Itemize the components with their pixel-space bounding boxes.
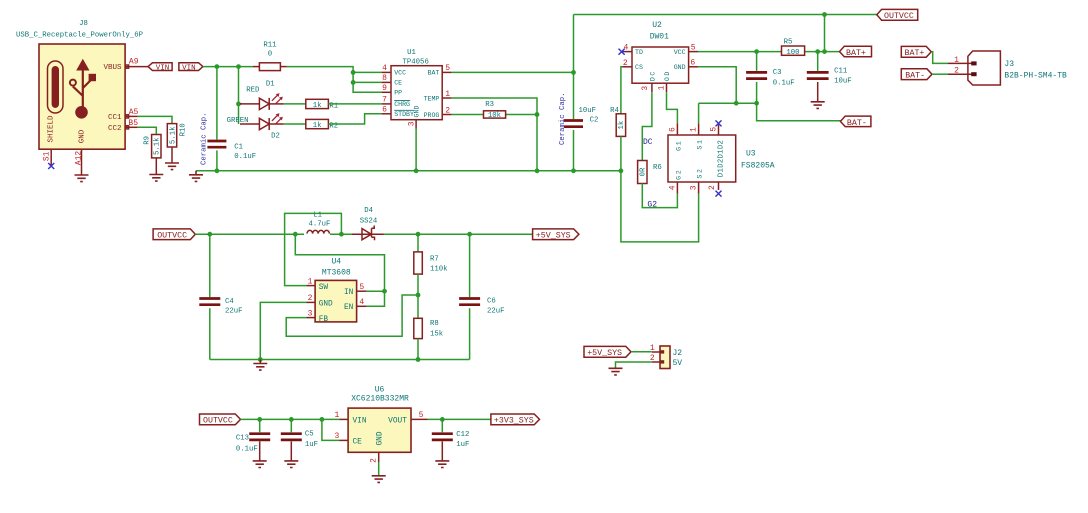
ground below C5 <box>284 461 298 468</box>
svg-text:GND: GND <box>79 129 87 143</box>
svg-text:0.1uF: 0.1uF <box>234 153 256 161</box>
wire U1 GND to rail <box>415 129 417 171</box>
svg-text:4: 4 <box>668 185 677 190</box>
svg-text:9: 9 <box>382 84 387 93</box>
resistor R3 10k <box>484 101 506 120</box>
svg-text:D1D2D1D2: D1D2D1D2 <box>718 140 726 177</box>
wire FB to divider tap <box>286 295 418 336</box>
svg-text:J2: J2 <box>673 349 683 358</box>
svg-text:1: 1 <box>445 90 450 99</box>
junction CE branch <box>320 417 325 422</box>
junction C12 <box>440 417 445 422</box>
pin GND (A12) with ground <box>75 129 89 181</box>
U6 pin 1 VIN <box>334 411 366 425</box>
ground below C13 <box>253 461 267 468</box>
svg-text:C13: C13 <box>236 434 249 442</box>
svg-text:CE: CE <box>353 438 363 446</box>
IC U2 DW01 <box>632 21 689 83</box>
junction R7 <box>416 232 421 237</box>
U1 pin 9 PP <box>382 84 403 97</box>
power flag +5V_SYS (boost output) <box>533 229 579 241</box>
diode D4 SS24 <box>360 207 378 240</box>
svg-text:22uF: 22uF <box>225 308 243 316</box>
svg-text:B2B-PH-SM4-TB: B2B-PH-SM4-TB <box>1004 71 1067 80</box>
wire VIN bus to R11 and U1 <box>203 67 382 93</box>
U3 pin 4 G2 <box>668 169 682 194</box>
power flag OUTVCC (LDO input) <box>200 414 241 426</box>
svg-text:R8: R8 <box>430 320 439 328</box>
svg-text:VIN: VIN <box>353 417 367 425</box>
junction GND/S1 <box>734 101 739 106</box>
capacitor C6 22uF <box>459 234 504 359</box>
svg-text:DC: DC <box>650 70 657 81</box>
svg-text:3: 3 <box>690 185 699 190</box>
svg-text:TD: TD <box>635 49 643 56</box>
power flag +3V3_SYS <box>491 414 540 426</box>
svg-text:22uF: 22uF <box>487 308 505 316</box>
svg-text:CHRG: CHRG <box>394 101 410 108</box>
svg-text:C12: C12 <box>456 431 469 439</box>
wire OD to G1 <box>667 92 678 123</box>
svg-text:R11: R11 <box>263 42 277 50</box>
svg-text:VBUS: VBUS <box>103 64 122 72</box>
svg-text:D4: D4 <box>364 207 373 215</box>
svg-text:4: 4 <box>359 298 364 307</box>
U1 pin 3 GND <box>408 106 421 129</box>
connector J2 body <box>660 346 682 369</box>
wire VOUT to +3V3_SYS <box>428 418 491 420</box>
resistor R9 5.1k <box>144 135 162 175</box>
resistor R11 0 <box>253 42 287 71</box>
svg-text:XC6210B332MR: XC6210B332MR <box>351 395 409 404</box>
svg-text:L1: L1 <box>313 211 322 219</box>
svg-text:6: 6 <box>668 127 677 132</box>
svg-text:5.1k: 5.1k <box>169 126 177 144</box>
junction rail C1 <box>215 168 220 173</box>
connector J3 body <box>968 51 1067 85</box>
svg-text:4: 4 <box>382 64 387 73</box>
svg-text:7: 7 <box>382 96 387 105</box>
svg-text:C2: C2 <box>590 117 599 125</box>
svg-text:0R: 0R <box>640 167 648 176</box>
capacitor C2 10uF <box>564 107 598 127</box>
IC U1 TP4056 <box>391 49 442 120</box>
svg-text:6: 6 <box>382 106 387 115</box>
svg-text:1k: 1k <box>618 120 626 129</box>
svg-text:VCC: VCC <box>674 49 686 56</box>
svg-text:SW: SW <box>319 284 329 292</box>
svg-text:1: 1 <box>690 127 699 132</box>
svg-text:PP: PP <box>394 90 402 97</box>
ground below U6 <box>372 476 386 483</box>
svg-text:VOUT: VOUT <box>388 417 407 425</box>
junction FB tap <box>416 293 421 298</box>
svg-text:U6: U6 <box>375 385 385 394</box>
svg-text:C1: C1 <box>234 144 243 152</box>
wire CC1 to R10 <box>138 116 172 123</box>
svg-text:TEMP: TEMP <box>424 95 440 102</box>
junction TEMP/PROG <box>535 112 540 117</box>
svg-text:1k: 1k <box>313 102 322 110</box>
svg-text:U2: U2 <box>652 21 662 30</box>
resistor R4 1k <box>610 107 626 171</box>
svg-text:MT3608: MT3608 <box>322 268 351 277</box>
svg-text:1uF: 1uF <box>456 441 469 449</box>
resistor R5 100 <box>782 39 805 57</box>
resistor R6 0R <box>638 161 662 184</box>
svg-text:2: 2 <box>370 458 379 463</box>
junction rail U1 GND <box>414 168 419 173</box>
svg-text:Ceramic Cap.: Ceramic Cap. <box>559 92 567 145</box>
svg-text:0.1uF: 0.1uF <box>236 445 258 453</box>
svg-text:CC2: CC2 <box>108 125 122 133</box>
USB trident glyph <box>70 59 96 119</box>
svg-text:CS: CS <box>635 64 643 71</box>
svg-text:R10: R10 <box>180 123 188 136</box>
wire SW top loop <box>285 213 342 285</box>
power flag BAT+ (J3) <box>901 46 931 58</box>
wire DC to R6 <box>642 92 652 160</box>
svg-text:C6: C6 <box>487 298 496 306</box>
svg-text:BAT: BAT <box>428 70 440 77</box>
svg-text:S1: S1 <box>697 138 704 149</box>
LED D2 GREEN <box>227 113 284 140</box>
svg-text:5: 5 <box>445 64 450 73</box>
J2 pin 2 <box>650 354 660 363</box>
svg-text:0.1uF: 0.1uF <box>773 80 795 88</box>
svg-text:+3V3_SYS: +3V3_SYS <box>494 417 534 426</box>
junction rail R4/S2 <box>619 168 624 173</box>
ground symbol boost rail <box>253 360 267 371</box>
svg-text:3: 3 <box>641 86 650 91</box>
svg-text:IN: IN <box>344 289 354 297</box>
ground below C12 <box>435 461 449 468</box>
svg-text:1: 1 <box>954 56 959 65</box>
U4 pin 1 SW <box>307 277 329 292</box>
svg-text:BAT+: BAT+ <box>905 49 925 58</box>
U2 pin 4 TD with no-connect X <box>619 43 643 56</box>
U1 pin 6 STDBY <box>382 106 415 119</box>
wire IN/EN tie to OUTVCC <box>295 234 384 306</box>
svg-text:VCC: VCC <box>394 70 406 77</box>
U2 pin 3 DC <box>641 70 657 92</box>
power flag BAT+ (left) <box>840 46 872 58</box>
junction rail TEMP <box>535 168 540 173</box>
pin SHIELD (S1) with no-connect X <box>43 115 56 169</box>
svg-text:+5V_SYS: +5V_SYS <box>536 232 571 241</box>
wire VCC to R5/BAT+ <box>698 51 840 53</box>
U3 pin 1 S1 <box>690 123 704 149</box>
capacitor C12 1uF <box>432 419 470 461</box>
junction R5/OUTVCC riser <box>822 49 827 54</box>
ground below R9 <box>149 175 163 182</box>
svg-text:6: 6 <box>690 58 695 67</box>
svg-text:C11: C11 <box>834 67 848 75</box>
svg-text:G2: G2 <box>647 201 657 210</box>
junction LED D1 <box>236 102 241 107</box>
resistor R2 1k <box>284 114 382 131</box>
pin CC2 (B5) <box>108 119 138 133</box>
resistor R1 1k <box>284 99 382 110</box>
U1 pin 7 CHRG <box>382 96 411 109</box>
wire C1 branch <box>216 67 218 171</box>
svg-text:1: 1 <box>308 277 313 286</box>
svg-text:4: 4 <box>623 43 628 52</box>
svg-text:CC1: CC1 <box>108 114 122 122</box>
svg-text:VIN: VIN <box>182 65 196 73</box>
wire S2 return to rail <box>621 171 699 242</box>
U1 pin 1 TEMP <box>424 90 452 103</box>
junction R5/C11 <box>815 49 820 54</box>
junction VIN/LED <box>236 64 241 69</box>
svg-text:4.7uF: 4.7uF <box>309 220 331 228</box>
power flag BAT- (left) <box>840 116 871 128</box>
power flag +5V_SYS (J2) <box>584 346 631 358</box>
svg-text:USB_C_Receptacle_PowerOnly_6P: USB_C_Receptacle_PowerOnly_6P <box>16 32 143 40</box>
wire R6 to G2 <box>642 184 677 208</box>
svg-text:C4: C4 <box>225 298 234 306</box>
svg-text:GND: GND <box>414 106 421 118</box>
ground below C11 <box>811 102 825 109</box>
U6 pin 3 CE <box>334 432 362 446</box>
junction C3 bottom <box>754 101 759 106</box>
svg-text:SHIELD: SHIELD <box>47 115 55 143</box>
wire TEMP loop <box>452 98 537 171</box>
wire OUTVCC top run <box>574 14 877 16</box>
svg-text:VIN: VIN <box>156 65 170 73</box>
svg-text:0: 0 <box>268 51 272 59</box>
svg-text:15k: 15k <box>430 330 444 338</box>
svg-text:1uF: 1uF <box>305 441 318 449</box>
U1 pin 8 CE <box>382 74 403 87</box>
svg-text:3: 3 <box>308 309 313 318</box>
power flag VIN (input) <box>148 63 172 73</box>
svg-text:SS24: SS24 <box>360 218 378 226</box>
wire BAT- to J3 pin 2 <box>932 73 948 75</box>
svg-text:OUTVCC: OUTVCC <box>203 417 233 426</box>
junction C13 <box>257 417 262 422</box>
junction BAT/C2 <box>571 70 576 75</box>
wire PROG to R3 <box>452 114 537 116</box>
U2 pin 1 OD <box>657 70 671 92</box>
junction VCC/C3 <box>754 49 759 54</box>
svg-text:BAT-: BAT- <box>847 119 867 128</box>
svg-text:U3: U3 <box>746 150 756 159</box>
boost ground rail <box>210 359 470 361</box>
U2 pin 2 CS <box>623 59 643 71</box>
U4 pin 5 IN <box>344 283 367 297</box>
U2 pin 6 GND <box>674 58 698 71</box>
svg-text:U1: U1 <box>407 49 416 57</box>
svg-text:8: 8 <box>382 74 387 83</box>
wire LED branch <box>239 67 243 124</box>
svg-text:1k: 1k <box>313 122 322 130</box>
svg-text:Ceramic Cap.: Ceramic Cap. <box>201 112 209 165</box>
svg-text:OD: OD <box>664 70 671 81</box>
svg-text:R9: R9 <box>144 136 152 145</box>
power flag OUTVCC (boost input) <box>153 229 195 241</box>
svg-text:+5V_SYS: +5V_SYS <box>587 349 622 358</box>
svg-text:S1: S1 <box>43 151 52 161</box>
svg-text:5V: 5V <box>673 359 683 368</box>
svg-text:S2: S2 <box>697 167 704 178</box>
svg-text:GND: GND <box>674 64 686 71</box>
wire riser to top <box>824 15 826 52</box>
power flag OUTVCC (top right) <box>877 9 918 21</box>
svg-text:2: 2 <box>308 294 313 303</box>
J3 pin 1 <box>948 56 977 66</box>
capacitor C4 22uF <box>199 234 242 359</box>
U6 pin 5 VOUT <box>388 411 427 425</box>
junction L1 right / SW <box>339 232 344 237</box>
junction VIN/C1 <box>215 64 220 69</box>
junction rail C2 <box>571 168 576 173</box>
junction rail U4 GND <box>258 357 263 362</box>
svg-text:2: 2 <box>445 106 450 115</box>
svg-text:DC: DC <box>643 138 653 147</box>
U6 pin 2 GND <box>370 431 385 463</box>
wire BAT+ to J3 pin 1 <box>931 52 948 64</box>
U4 pin 2 GND <box>307 294 334 309</box>
wire U2 GND / S1 / C3 / BAT- net <box>698 67 840 124</box>
capacitor C1 0.1uF <box>207 141 256 161</box>
ground rail of charger section <box>196 170 621 172</box>
svg-text:5: 5 <box>359 283 364 292</box>
inductor L1 4.7uF <box>307 211 330 233</box>
U3 pin 2 with no-connect X <box>708 182 722 197</box>
svg-text:A12: A12 <box>75 151 84 166</box>
capacitor C5 1uF <box>281 419 318 461</box>
wire CC2 to R9 <box>138 127 157 134</box>
wire U4 GND to rail <box>260 302 306 359</box>
LED D1 RED <box>240 81 284 110</box>
U3 pin 6 G1 <box>668 123 682 150</box>
svg-text:G2: G2 <box>676 169 683 180</box>
ground below J2 <box>609 368 623 375</box>
svg-text:10uF: 10uF <box>579 107 597 115</box>
wire U6 GND to ground <box>378 462 380 476</box>
IC U6 XC6210B332MR <box>348 385 411 452</box>
connector J8 body <box>16 20 143 149</box>
IC U3 FS8205A <box>668 135 775 182</box>
ground symbol at rail left <box>189 171 203 182</box>
U3 pin 5 with no-connect X <box>709 120 721 135</box>
svg-text:1: 1 <box>334 411 339 420</box>
svg-text:OUTVCC: OUTVCC <box>157 232 187 241</box>
svg-text:BAT-: BAT- <box>905 72 925 81</box>
svg-text:3: 3 <box>334 432 339 441</box>
svg-text:FB: FB <box>319 316 329 324</box>
svg-text:B5: B5 <box>128 119 138 128</box>
svg-text:DW01: DW01 <box>650 33 669 42</box>
svg-text:1: 1 <box>657 85 666 90</box>
junction C4 <box>207 232 212 237</box>
junction IN/EN <box>382 289 387 294</box>
pin VBUS (A9) <box>103 58 148 73</box>
svg-text:3: 3 <box>408 121 417 126</box>
svg-text:10uF: 10uF <box>834 78 852 86</box>
svg-text:U4: U4 <box>331 257 341 266</box>
U1 pin 5 BAT <box>428 64 452 77</box>
U1 pin 4 VCC <box>382 64 407 77</box>
svg-text:C3: C3 <box>773 69 782 77</box>
svg-text:5: 5 <box>419 411 424 420</box>
svg-text:BAT+: BAT+ <box>846 49 866 58</box>
junction top/BAT+ riser <box>822 12 827 17</box>
svg-text:GND: GND <box>377 431 385 445</box>
J3 pin 2 <box>948 67 977 77</box>
svg-text:CE: CE <box>394 80 402 87</box>
resistor R7 110k <box>414 234 448 295</box>
IC U4 MT3608 <box>315 257 357 322</box>
svg-text:R5: R5 <box>784 39 793 47</box>
svg-text:STDBY: STDBY <box>394 111 414 118</box>
U3 pin 3 S2 <box>690 167 704 193</box>
J2 pin 1 <box>650 344 660 353</box>
svg-text:5.1k: 5.1k <box>154 137 162 155</box>
resistor R10 5.1k <box>167 123 187 163</box>
svg-text:J3: J3 <box>1004 60 1014 69</box>
pin CC1 (A5) <box>108 108 139 122</box>
wire CS to R4 <box>621 67 623 114</box>
U2 pin 5 VCC <box>674 43 698 56</box>
capacitor C11 10uF <box>807 52 852 102</box>
power flag BAT- (J3) <box>901 69 932 81</box>
U1 pin 2 PROG <box>424 106 452 119</box>
svg-text:R7: R7 <box>430 256 439 264</box>
svg-text:A5: A5 <box>129 108 139 117</box>
capacitor C13 0.1uF <box>236 419 270 461</box>
wire BAT to OUTVCC riser <box>452 15 574 171</box>
capacitor C3 0.1uF <box>746 52 795 104</box>
svg-text:10k: 10k <box>488 112 502 120</box>
svg-text:D1: D1 <box>266 81 275 89</box>
svg-text:110k: 110k <box>430 265 448 273</box>
svg-text:2: 2 <box>708 185 717 190</box>
junction C5 <box>289 417 294 422</box>
wire boost main line <box>195 233 532 235</box>
svg-text:FS8205A: FS8205A <box>741 162 775 171</box>
svg-text:C5: C5 <box>305 430 314 438</box>
svg-text:GREEN: GREEN <box>227 117 249 125</box>
svg-text:PROG: PROG <box>424 112 440 119</box>
svg-text:OUTVCC: OUTVCC <box>884 12 914 21</box>
power flag VIN (output) <box>179 63 203 73</box>
svg-text:A9: A9 <box>129 58 139 67</box>
svg-text:2: 2 <box>954 67 959 76</box>
wire +5V_SYS to J2 pin 1 <box>616 352 652 369</box>
svg-text:GND: GND <box>319 301 333 309</box>
svg-text:EN: EN <box>344 304 354 312</box>
USB-C plug glyph <box>48 61 64 113</box>
svg-text:G1: G1 <box>676 140 683 151</box>
U4 pin 3 FB <box>307 309 329 324</box>
junction U1 VCC <box>351 70 356 75</box>
svg-text:RED: RED <box>246 86 260 94</box>
svg-text:5: 5 <box>691 43 696 52</box>
svg-text:J8: J8 <box>79 20 88 28</box>
svg-text:D2: D2 <box>271 132 280 140</box>
svg-text:100: 100 <box>786 49 799 57</box>
svg-text:5: 5 <box>709 127 718 132</box>
ground below R10 <box>165 163 179 170</box>
junction C6 <box>467 232 472 237</box>
junction L1 left / IN <box>293 232 298 237</box>
svg-text:R6: R6 <box>653 164 662 172</box>
junction U1 CE <box>351 80 356 85</box>
svg-text:R3: R3 <box>485 101 494 109</box>
junction rail R8 <box>416 357 421 362</box>
